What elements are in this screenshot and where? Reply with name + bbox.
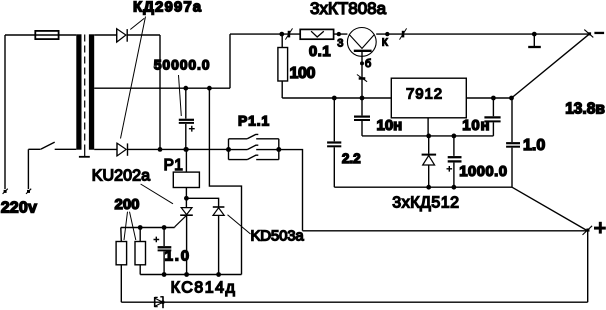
terminal minus (tick) (584, 30, 593, 38)
wire second mains input vertical (27, 149, 29, 189)
wire diagonal to plus (512, 187, 587, 230)
relay coil P1 (173, 149, 199, 198)
resistor R3 200 (116, 228, 127, 303)
wire secondary middle tap y88 (94, 87, 230, 89)
node dot chassis (532, 32, 537, 37)
leader to VD2 (121, 17, 146, 139)
label minus sign (594, 32, 604, 34)
wire rectifier output vertical x160 (159, 35, 161, 149)
tick mark x289 (285, 28, 292, 39)
capacitor C1 50000.0 (179, 88, 195, 149)
node dot C7 bottom (162, 272, 167, 277)
node dot C1 top (183, 86, 188, 91)
leader to VS1 (141, 184, 173, 204)
zener VD5 KS814 (155, 296, 165, 308)
resistor R1 0.1 (300, 29, 333, 39)
capacitor C4 1.0 (506, 98, 520, 187)
wire tap bus x209 down (209, 88, 241, 274)
svg-text:Р1: Р1 (164, 157, 184, 174)
transformer T1 secondary bar (89, 34, 94, 149)
node dot 2.2 branch (332, 96, 337, 101)
svg-text:220v: 220v (1, 200, 37, 217)
transformer T1 core ground stub (79, 150, 90, 157)
capacitor C3 10n (484, 98, 500, 136)
node dot rectifier join (158, 147, 163, 152)
node dot R4 top (138, 225, 143, 230)
wire secondary bottom tap (94, 148, 117, 150)
svg-text:10н: 10н (377, 117, 403, 134)
tick mark base wire (357, 75, 367, 82)
wire top-left mains rail (5, 34, 76, 36)
transformer T1 primary bar (76, 34, 81, 149)
node dot 10n2 top (491, 96, 496, 101)
relay contacts P1.1 (229, 134, 279, 159)
svg-text:100: 100 (290, 65, 316, 82)
diode VD2 KD2997a bottom (117, 143, 128, 156)
wire coil bottom node (186, 198, 218, 207)
node dot C7 top (162, 225, 167, 230)
switch SA1 (28, 142, 76, 149)
node dot C1000 top (452, 134, 457, 139)
svg-text:Р1.1: Р1.1 (238, 113, 270, 129)
svg-text:КД2997а: КД2997а (133, 0, 202, 16)
wire middle tap riser x230 (229, 34, 231, 88)
node dot P1.1 left (226, 147, 231, 152)
wire bottom rail (121, 301, 587, 303)
wire plus vertical right edge (587, 231, 589, 302)
wire top rail right section (230, 33, 589, 35)
diode VD4 KD503a (213, 207, 225, 275)
wire lower rail y136 (362, 135, 493, 137)
label plus sign (594, 222, 606, 234)
wire cathode bus y274.5 (140, 274, 241, 276)
node dot emitter (337, 32, 341, 36)
node dot coil bottom (184, 196, 189, 201)
svg-text:3: 3 (337, 38, 343, 50)
wire P1.1 to plus rail (279, 150, 303, 231)
wire plus rail y231 (303, 230, 588, 232)
svg-text:7912: 7912 (406, 86, 443, 103)
svg-text:10н: 10н (462, 117, 490, 134)
node dot base join (360, 96, 365, 101)
leader to VD4 (228, 215, 251, 234)
svg-text:13.8в: 13.8в (565, 100, 605, 117)
svg-text:0.1: 0.1 (309, 43, 331, 60)
leader to VD1 (130, 18, 144, 29)
resistor R4 200 (135, 228, 146, 275)
leader to C1 (179, 75, 182, 116)
node dot coil top (184, 147, 189, 152)
svg-text:1.0: 1.0 (165, 248, 191, 265)
node dot C1000 bottom (452, 185, 457, 190)
transistor VT1 3xKT808a (347, 28, 376, 99)
node dot x209 top (207, 86, 212, 91)
fuse FU1 (35, 31, 58, 39)
node dot P1.1 right (276, 147, 281, 152)
wire secondary top tap (94, 34, 117, 36)
leaders to resistors (124, 212, 136, 240)
wire plus collector rail y187 (334, 186, 512, 188)
node dot C1 bottom (183, 147, 188, 152)
node dot base (360, 61, 364, 65)
capacitor C7 1.0 (154, 228, 172, 275)
capacitor C5 2.2 (327, 98, 341, 187)
wire from VD1 to corner (127, 34, 160, 36)
resistor R2 100 (278, 34, 288, 98)
svg-text:1.0: 1.0 (523, 137, 545, 154)
terminal 220v left (tick) (3, 189, 8, 194)
wire left mains input vertical (4, 35, 6, 189)
diode VD1 KD2997a top (117, 29, 128, 42)
node dot diagonal start (509, 96, 514, 101)
thyristor VS1 KU202a (175, 198, 193, 274)
node dot collector (385, 32, 389, 36)
svg-text:50000.0: 50000.0 (154, 57, 211, 73)
wire gate bus y227.5 (121, 226, 175, 229)
regulator U1 7912 (391, 78, 466, 118)
terminal plus (tick) (583, 226, 593, 235)
chassis T symbol (528, 34, 541, 47)
svg-text:3хКД512: 3хКД512 (392, 194, 459, 211)
svg-text:2.2: 2.2 (342, 151, 361, 166)
node dot VS1 cathode (184, 272, 189, 277)
svg-text:KD503a: KD503a (251, 227, 305, 244)
node dot VD512 bottom (426, 185, 431, 190)
node dot VD4 anode (216, 272, 221, 277)
transformer T1 core dashed line (84, 35, 86, 151)
wire rectifier rail y150 (128, 148, 229, 150)
svg-text:КС814д: КС814д (171, 280, 237, 297)
svg-text:200: 200 (115, 196, 140, 213)
capacitor C2 10n (354, 98, 370, 136)
terminal 220v right (tick) (26, 189, 31, 194)
wire base rail y98 (282, 97, 391, 99)
wire diagonal to minus (512, 34, 590, 98)
svg-text:К: К (382, 38, 388, 49)
node dot R2 top (279, 32, 284, 37)
wire 7912 bottom pin (427, 118, 429, 136)
diode VD3 3xKD512 (422, 136, 437, 187)
svg-text:б: б (365, 58, 371, 70)
svg-text:KU202a: KU202a (92, 167, 150, 184)
svg-text:1000.0: 1000.0 (459, 163, 507, 180)
node dot VD512 top (426, 134, 431, 139)
capacitor C6 1000.0 (447, 136, 462, 188)
tick mark x403 (400, 28, 407, 39)
svg-text:3хКТ808а: 3хКТ808а (310, 0, 387, 18)
wire 7912 output (466, 97, 511, 99)
